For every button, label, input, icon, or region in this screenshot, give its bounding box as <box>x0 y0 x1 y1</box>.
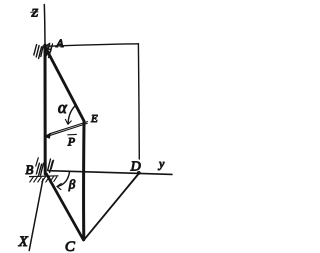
svg-text:y: y <box>158 157 165 171</box>
angle beta arc with arrowhead <box>58 172 70 187</box>
arrowhead of P <box>44 133 51 138</box>
Z crossbar <box>31 11 38 13</box>
member AB (thick vertical bar along z-axis) <box>43 45 46 174</box>
svg-text:B: B <box>25 162 33 177</box>
projection line corner down to D (vertical) <box>137 44 140 159</box>
svg-text:E: E <box>90 113 98 125</box>
svg-text:X: X <box>18 234 29 250</box>
x-axis <box>29 179 43 251</box>
support hatching at B, right side <box>48 159 51 171</box>
member BC (thick diagonal bar) <box>47 174 84 240</box>
support hatching at A, left side <box>34 45 37 55</box>
line DC <box>84 174 139 240</box>
arrowhead at A on projection line <box>45 43 50 49</box>
force vector P (double-line shaft) <box>50 122 88 134</box>
member AE (thick diagonal bar) <box>46 48 85 122</box>
node D <box>137 171 141 175</box>
svg-text:A: A <box>55 36 64 50</box>
ground line at B <box>30 175 59 178</box>
support hatching at A, right side <box>47 44 50 55</box>
svg-text:β: β <box>68 177 76 192</box>
member EC (thick vertical bar) <box>82 122 85 240</box>
svg-text:D: D <box>130 159 141 174</box>
angle alpha arc with arrowhead <box>68 105 76 123</box>
y-axis <box>49 171 173 175</box>
z-axis (vertical line above A) <box>43 5 46 45</box>
svg-text:P: P <box>67 135 76 149</box>
projection line A to corner (horizontal) <box>48 44 139 46</box>
svg-text:C: C <box>65 239 76 253</box>
ground hatch ticks at B <box>30 177 34 182</box>
support hatching at B, left side <box>36 163 39 174</box>
svg-text:α: α <box>58 98 68 117</box>
